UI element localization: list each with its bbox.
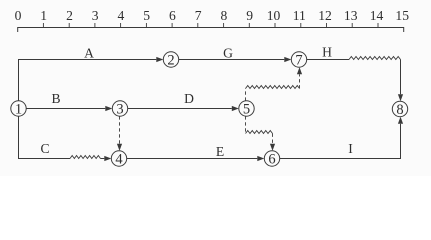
time scale tick 2 [68, 23, 70, 28]
time scale number 6 [169, 8, 176, 23]
activity G arrow (node 2 to node 7) [179, 57, 292, 62]
time scale number 14 [370, 8, 384, 23]
node 1 [11, 101, 26, 118]
svg-text:11: 11 [293, 8, 306, 23]
time scale tick 8 [223, 23, 225, 28]
time scale number 2 [66, 8, 73, 23]
svg-text:5: 5 [143, 8, 150, 23]
svg-text:9: 9 [246, 8, 253, 23]
svg-text:4: 4 [115, 152, 123, 168]
svg-text:2: 2 [167, 53, 174, 69]
dummy arrow with free-float zigzag (node 5 to node 6, dashed) [246, 116, 276, 151]
time scale tick 4 [120, 23, 122, 28]
time scale number 10 [267, 8, 281, 23]
node 7 [291, 52, 306, 69]
activity E arrow (node 4 to node 6) [127, 156, 265, 161]
time scale baseline with end caps [18, 28, 404, 33]
activity G label [223, 46, 233, 61]
time scale number 1 [40, 8, 47, 23]
svg-text:15: 15 [395, 8, 409, 23]
activity H arrow with free-float zigzag (node 7 to node 8) [307, 57, 403, 102]
activity C arrow with free-float zigzag (node 1 to node 4) [19, 116, 112, 161]
activity B label [51, 91, 60, 106]
svg-text:B: B [51, 91, 60, 106]
activity A label [84, 46, 94, 61]
time scale number 13 [344, 8, 358, 23]
time scale tick 14 [377, 23, 379, 28]
node 8 [392, 101, 407, 118]
svg-text:G: G [223, 46, 233, 61]
svg-text:1: 1 [15, 102, 22, 118]
node 2 [163, 52, 178, 69]
time scale tick 1 [42, 23, 44, 28]
svg-text:0: 0 [15, 8, 22, 23]
svg-text:A: A [84, 46, 94, 61]
svg-text:4: 4 [118, 8, 125, 23]
svg-text:7: 7 [195, 8, 202, 23]
svg-text:8: 8 [221, 8, 228, 23]
svg-text:13: 13 [344, 8, 358, 23]
activity I arrow (node 6 to node 8) [280, 117, 403, 159]
activity C label [40, 141, 49, 156]
svg-text:1: 1 [40, 8, 47, 23]
time scale number 11 [293, 8, 306, 23]
node 3 [112, 101, 127, 118]
time scale number 7 [195, 8, 202, 23]
time scale number 8 [221, 8, 228, 23]
time scale tick 7 [197, 23, 199, 28]
svg-text:7: 7 [295, 53, 302, 69]
activity A arrow (node 1 to node 2) [19, 57, 164, 101]
svg-text:6: 6 [268, 152, 275, 168]
activity B arrow (node 1 to node 3) [26, 106, 112, 111]
svg-text:12: 12 [318, 8, 332, 23]
time scale number 3 [92, 8, 99, 23]
time scale tick 3 [94, 23, 96, 28]
activity I label [348, 141, 353, 156]
svg-text:D: D [184, 91, 194, 106]
svg-text:8: 8 [396, 102, 403, 118]
time scale tick 10 [274, 23, 276, 28]
time scale tick 9 [248, 23, 250, 28]
time scale tick 6 [171, 23, 173, 28]
time scale number 12 [318, 8, 332, 23]
svg-text:6: 6 [169, 8, 176, 23]
node 5 [239, 101, 254, 118]
svg-text:I: I [348, 141, 353, 156]
time scale tick 11 [300, 23, 302, 28]
svg-text:E: E [216, 144, 224, 159]
svg-text:2: 2 [66, 8, 73, 23]
dummy arrow with free-float zigzag (node 5 to node 7, dashed) [246, 67, 303, 101]
time scale number 0 [15, 8, 22, 23]
time scale number 4 [118, 8, 125, 23]
svg-text:14: 14 [370, 8, 384, 23]
activity D label [184, 91, 194, 106]
dummy arrow (node 3 to node 4, dashed) [117, 116, 122, 151]
node 4 [111, 151, 126, 168]
time scale number 5 [143, 8, 150, 23]
svg-text:3: 3 [92, 8, 99, 23]
time scale tick 5 [145, 23, 147, 28]
time scale number 15 [395, 8, 409, 23]
time scale number 9 [246, 8, 253, 23]
time scale tick 12 [326, 23, 328, 28]
svg-text:C: C [40, 141, 49, 156]
svg-text:3: 3 [116, 102, 123, 118]
time scale tick 13 [351, 23, 353, 28]
node 6 [264, 151, 279, 168]
svg-text:10: 10 [267, 8, 281, 23]
activity E label [216, 144, 224, 159]
activity H label [322, 44, 332, 59]
activity D arrow (node 3 to node 5) [128, 106, 239, 111]
svg-text:5: 5 [243, 102, 250, 118]
svg-text:H: H [322, 44, 332, 59]
